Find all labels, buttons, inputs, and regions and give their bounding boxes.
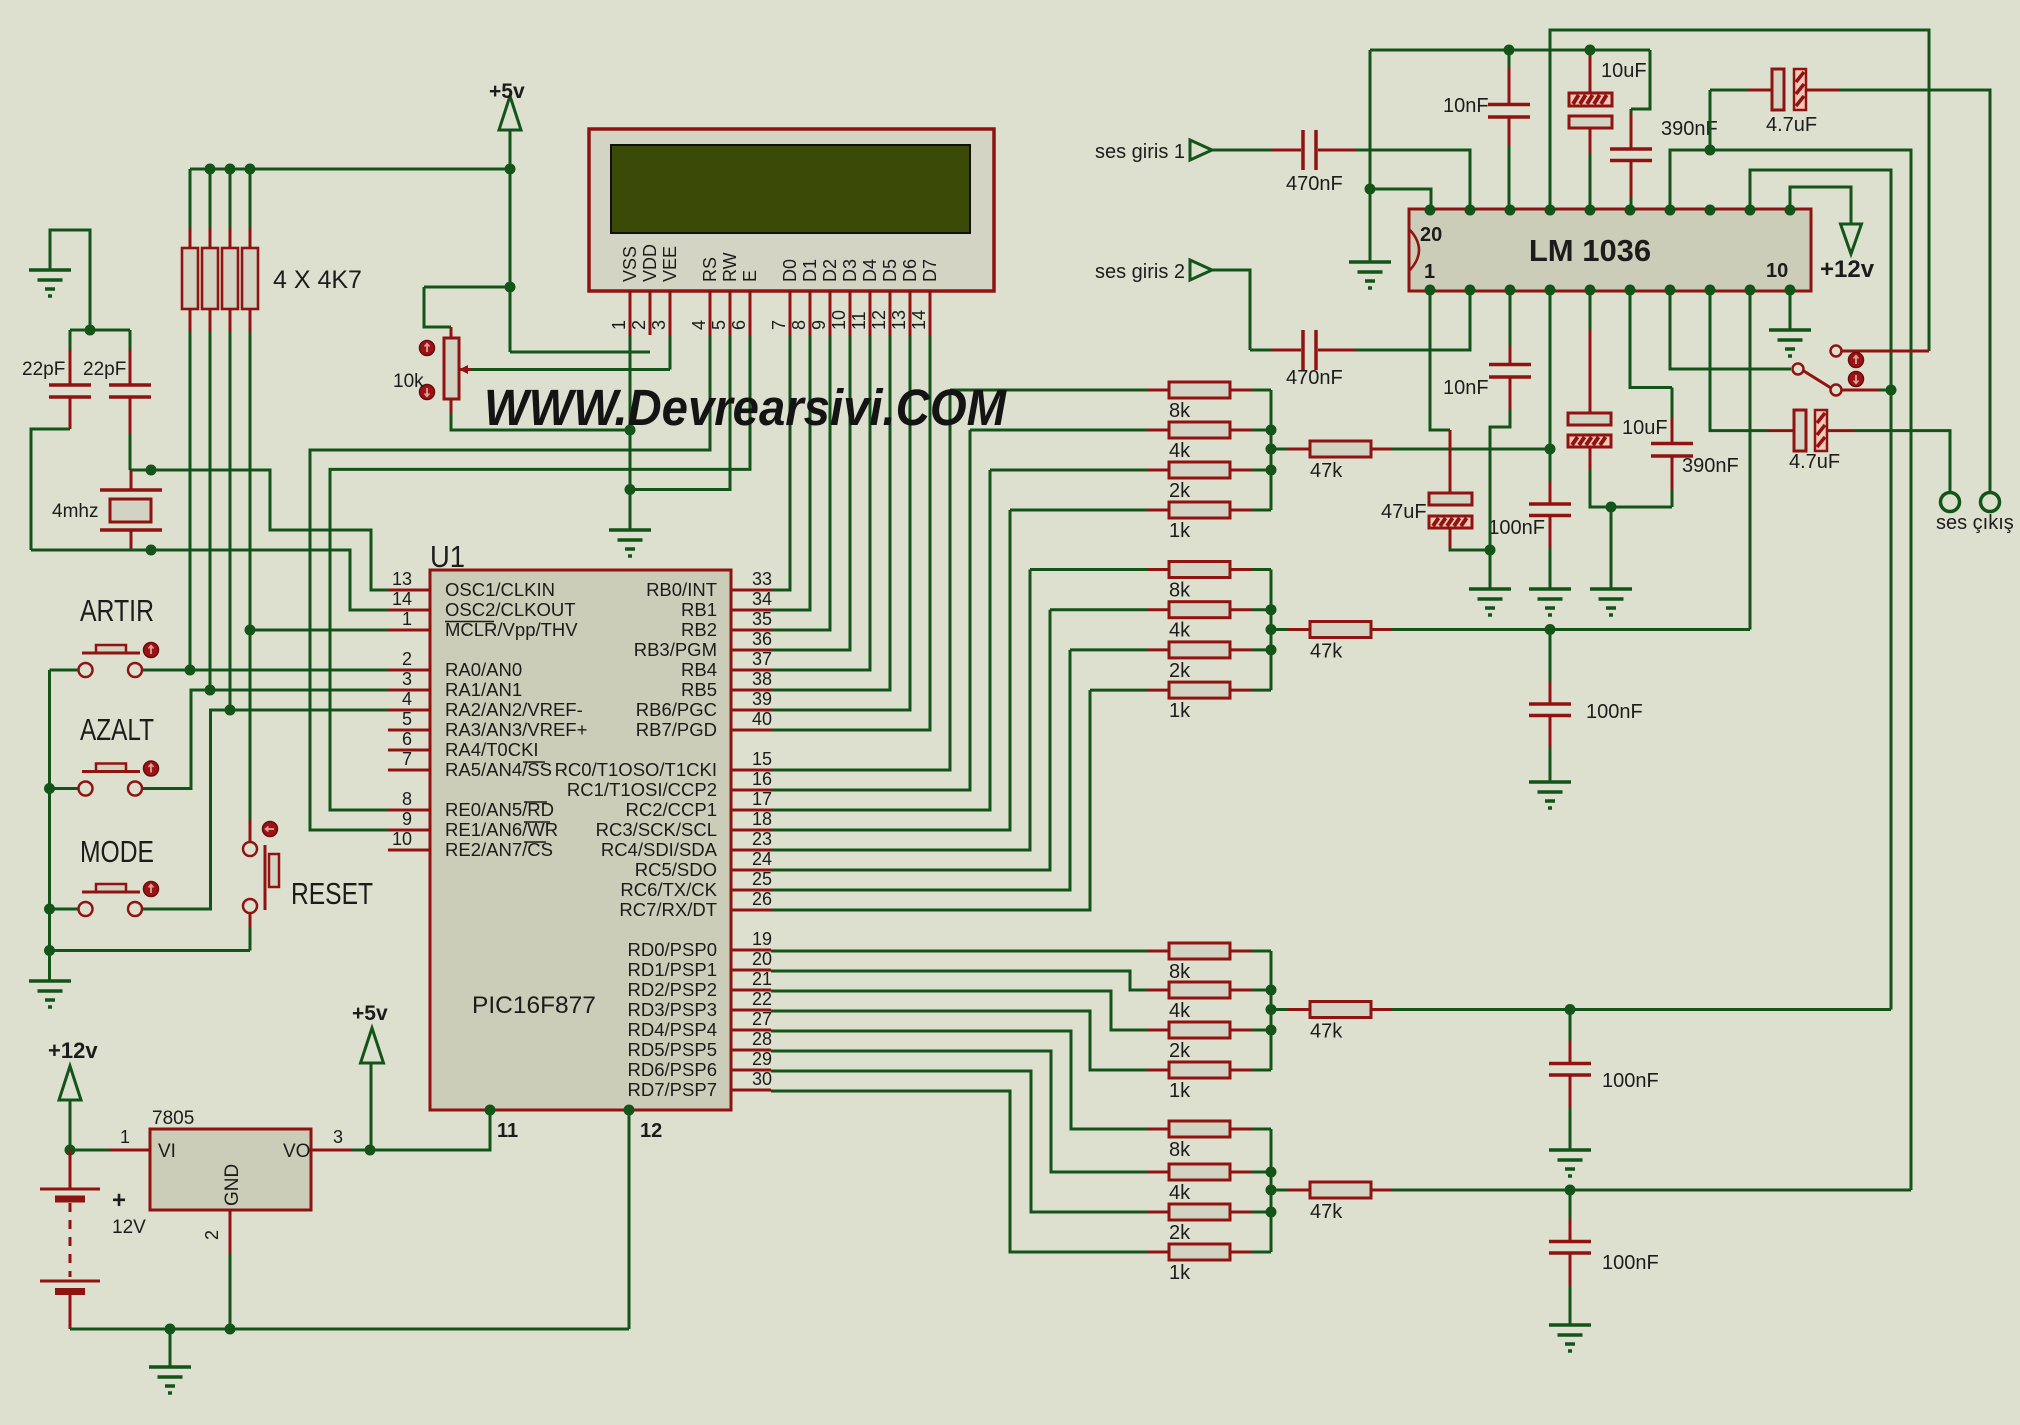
svg-text:RC0/T1OSO/T1CKI: RC0/T1OSO/T1CKI — [555, 759, 717, 780]
svg-text:2k: 2k — [1169, 1222, 1191, 1244]
svg-text:4k: 4k — [1169, 1182, 1191, 1204]
svg-text:D4: D4 — [860, 259, 880, 282]
svg-text:35: 35 — [752, 609, 772, 629]
svg-text:3: 3 — [649, 320, 669, 330]
svg-text:11: 11 — [849, 311, 869, 330]
svg-text:RB4: RB4 — [681, 659, 717, 680]
svg-text:19: 19 — [752, 929, 772, 949]
svg-text:2: 2 — [402, 649, 412, 669]
svg-text:4mhz: 4mhz — [52, 501, 98, 522]
svg-text:RA0/AN0: RA0/AN0 — [445, 659, 522, 680]
svg-text:3: 3 — [333, 1127, 343, 1147]
svg-text:4k: 4k — [1169, 440, 1191, 462]
svg-text:RS: RS — [700, 257, 720, 282]
svg-text:VEE: VEE — [660, 246, 680, 282]
svg-text:1: 1 — [120, 1127, 130, 1147]
svg-text:13: 13 — [392, 569, 412, 589]
svg-text:10: 10 — [1766, 260, 1788, 282]
svg-text:RC4/SDI/SDA: RC4/SDI/SDA — [601, 839, 718, 860]
svg-text:2k: 2k — [1169, 1040, 1191, 1062]
svg-text:24: 24 — [752, 849, 772, 869]
svg-text:+5v: +5v — [489, 80, 525, 103]
svg-text:36: 36 — [752, 629, 772, 649]
svg-text:VO: VO — [283, 1141, 310, 1162]
svg-text:7805: 7805 — [152, 1108, 194, 1129]
svg-text:9: 9 — [809, 320, 829, 330]
svg-text:7: 7 — [769, 320, 789, 330]
svg-text:D0: D0 — [780, 259, 800, 282]
svg-text:8k: 8k — [1169, 1139, 1191, 1161]
svg-text:2: 2 — [202, 1230, 222, 1240]
svg-text:RD7/PSP7: RD7/PSP7 — [628, 1079, 717, 1100]
svg-text:26: 26 — [752, 889, 772, 909]
svg-text:47k: 47k — [1310, 460, 1343, 482]
svg-text:RB0/INT: RB0/INT — [646, 579, 717, 600]
svg-text:28: 28 — [752, 1029, 772, 1049]
svg-text:20: 20 — [752, 949, 772, 969]
svg-text:2: 2 — [629, 320, 649, 330]
svg-text:25: 25 — [752, 869, 772, 889]
svg-text:10uF: 10uF — [1601, 60, 1647, 82]
svg-text:22pF: 22pF — [83, 359, 126, 380]
svg-text:RD2/PSP2: RD2/PSP2 — [628, 979, 717, 1000]
svg-text:RD6/PSP6: RD6/PSP6 — [628, 1059, 717, 1080]
svg-text:21: 21 — [752, 969, 772, 989]
svg-text:6: 6 — [729, 320, 749, 330]
svg-text:VDD: VDD — [640, 244, 660, 282]
svg-text:RB2: RB2 — [681, 619, 717, 640]
svg-text:7: 7 — [402, 749, 412, 769]
svg-text:10: 10 — [392, 829, 412, 849]
svg-text:RA3/AN3/VREF+: RA3/AN3/VREF+ — [445, 719, 587, 740]
svg-text:RA4/T0CKI: RA4/T0CKI — [445, 739, 539, 760]
svg-text:10nF: 10nF — [1443, 377, 1489, 399]
svg-text:470nF: 470nF — [1286, 367, 1343, 389]
svg-text:1: 1 — [402, 609, 412, 629]
svg-text:470nF: 470nF — [1286, 173, 1343, 195]
svg-text:4.7uF: 4.7uF — [1766, 114, 1817, 136]
svg-text:RW: RW — [720, 252, 740, 282]
svg-text:1k: 1k — [1169, 520, 1191, 542]
svg-text:20: 20 — [1420, 224, 1442, 246]
svg-text:18: 18 — [752, 809, 772, 829]
svg-text:4.7uF: 4.7uF — [1789, 451, 1840, 473]
svg-text:16: 16 — [752, 769, 772, 789]
svg-text:15: 15 — [752, 749, 772, 769]
svg-text:23: 23 — [752, 829, 772, 849]
svg-text:OSC1/CLKIN: OSC1/CLKIN — [445, 579, 555, 600]
svg-text:1: 1 — [1424, 261, 1435, 283]
svg-text:5: 5 — [402, 709, 412, 729]
svg-text:38: 38 — [752, 669, 772, 689]
svg-text:RD1/PSP1: RD1/PSP1 — [628, 959, 717, 980]
svg-text:47k: 47k — [1310, 641, 1343, 663]
svg-text:LM 1036: LM 1036 — [1529, 233, 1651, 268]
svg-text:RC3/SCK/SCL: RC3/SCK/SCL — [596, 819, 717, 840]
svg-text:GND: GND — [222, 1164, 243, 1206]
svg-text:27: 27 — [752, 1009, 772, 1029]
svg-text:30: 30 — [752, 1069, 772, 1089]
svg-text:RD0/PSP0: RD0/PSP0 — [628, 939, 717, 960]
svg-text:39: 39 — [752, 689, 772, 709]
svg-text:D6: D6 — [900, 259, 920, 282]
svg-text:2k: 2k — [1169, 480, 1191, 502]
svg-text:1k: 1k — [1169, 700, 1191, 722]
svg-text:RB7/PGD: RB7/PGD — [636, 719, 717, 740]
svg-text:ses giris 2: ses giris 2 — [1095, 261, 1185, 283]
svg-text:390nF: 390nF — [1682, 455, 1739, 477]
svg-text:1k: 1k — [1169, 1080, 1191, 1102]
svg-text:13: 13 — [889, 310, 909, 330]
svg-text:37: 37 — [752, 649, 772, 669]
svg-text:10nF: 10nF — [1443, 95, 1489, 117]
svg-text:8k: 8k — [1169, 961, 1191, 983]
svg-text:RB5: RB5 — [681, 679, 717, 700]
svg-text:5: 5 — [709, 320, 729, 330]
svg-text:4k: 4k — [1169, 620, 1191, 642]
svg-text:6: 6 — [402, 729, 412, 749]
svg-text:U1: U1 — [430, 539, 465, 574]
svg-text:RB6/PGC: RB6/PGC — [636, 699, 717, 720]
svg-text:+: + — [112, 1187, 126, 1214]
svg-text:10k: 10k — [393, 371, 424, 392]
svg-text:AZALT: AZALT — [80, 712, 154, 747]
svg-text:RD3/PSP3: RD3/PSP3 — [628, 999, 717, 1020]
svg-text:4k: 4k — [1169, 1000, 1191, 1022]
svg-text:29: 29 — [752, 1049, 772, 1069]
svg-text:RC1/T1OSI/CCP2: RC1/T1OSI/CCP2 — [567, 779, 717, 800]
svg-text:100nF: 100nF — [1586, 701, 1643, 723]
svg-text:+5v: +5v — [352, 1002, 388, 1025]
svg-text:4: 4 — [689, 320, 709, 330]
svg-text:RESET: RESET — [291, 876, 373, 911]
svg-text:RB3/PGM: RB3/PGM — [634, 639, 717, 660]
svg-text:ARTIR: ARTIR — [80, 593, 154, 628]
svg-text:D7: D7 — [920, 259, 940, 282]
svg-text:PIC16F877: PIC16F877 — [472, 992, 596, 1019]
svg-text:VI: VI — [158, 1141, 176, 1162]
svg-text:RC5/SDO: RC5/SDO — [635, 859, 717, 880]
svg-text:WWW.Devrearsivi.COM: WWW.Devrearsivi.COM — [484, 379, 1007, 436]
svg-text:10: 10 — [829, 310, 849, 330]
svg-text:17: 17 — [752, 789, 772, 809]
svg-text:D1: D1 — [800, 259, 820, 282]
svg-text:12: 12 — [640, 1120, 662, 1142]
svg-text:40: 40 — [752, 709, 772, 729]
svg-text:RC2/CCP1: RC2/CCP1 — [626, 799, 718, 820]
svg-text:E: E — [740, 270, 760, 282]
svg-text:ses çıkış: ses çıkış — [1936, 512, 2014, 534]
svg-text:11: 11 — [497, 1120, 518, 1142]
svg-text:12: 12 — [869, 310, 889, 330]
svg-text:D5: D5 — [880, 259, 900, 282]
svg-text:RA2/AN2/VREF-: RA2/AN2/VREF- — [445, 699, 583, 720]
svg-text:RD5/PSP5: RD5/PSP5 — [628, 1039, 717, 1060]
svg-text:33: 33 — [752, 569, 772, 589]
svg-text:8: 8 — [402, 789, 412, 809]
svg-text:D3: D3 — [840, 259, 860, 282]
svg-text:RB1: RB1 — [681, 599, 717, 620]
svg-text:RC6/TX/CK: RC6/TX/CK — [620, 879, 717, 900]
svg-text:3: 3 — [402, 669, 412, 689]
svg-text:100nF: 100nF — [1602, 1070, 1659, 1092]
svg-text:12V: 12V — [112, 1217, 146, 1238]
svg-text:1k: 1k — [1169, 1262, 1191, 1284]
svg-text:22pF: 22pF — [22, 359, 65, 380]
svg-text:8k: 8k — [1169, 400, 1191, 422]
svg-text:9: 9 — [402, 809, 412, 829]
svg-text:47k: 47k — [1310, 1201, 1343, 1223]
svg-text:1: 1 — [609, 320, 629, 330]
svg-text:OSC2/CLKOUT: OSC2/CLKOUT — [445, 599, 576, 620]
svg-text:47k: 47k — [1310, 1021, 1343, 1043]
svg-text:34: 34 — [752, 589, 772, 609]
svg-text:RA1/AN1: RA1/AN1 — [445, 679, 522, 700]
svg-text:8k: 8k — [1169, 580, 1191, 602]
svg-text:14: 14 — [392, 589, 412, 609]
svg-text:RC7/RX/DT: RC7/RX/DT — [619, 899, 717, 920]
svg-text:100nF: 100nF — [1488, 517, 1545, 539]
svg-text:VSS: VSS — [620, 246, 640, 282]
svg-text:ses giris 1: ses giris 1 — [1095, 141, 1185, 163]
svg-text:100nF: 100nF — [1602, 1252, 1659, 1274]
svg-text:4: 4 — [402, 689, 412, 709]
svg-text:22: 22 — [752, 989, 772, 1009]
svg-text:D2: D2 — [820, 259, 840, 282]
svg-text:14: 14 — [909, 310, 929, 330]
svg-text:2k: 2k — [1169, 660, 1191, 682]
svg-text:10uF: 10uF — [1622, 417, 1668, 439]
svg-text:RD4/PSP4: RD4/PSP4 — [628, 1019, 717, 1040]
svg-text:47uF: 47uF — [1381, 501, 1427, 523]
svg-text:+12v: +12v — [1820, 256, 1875, 283]
svg-text:+12v: +12v — [48, 1038, 98, 1063]
svg-text:8: 8 — [789, 320, 809, 330]
svg-text:MODE: MODE — [80, 834, 154, 869]
svg-text:4 X 4K7: 4 X 4K7 — [273, 266, 362, 294]
